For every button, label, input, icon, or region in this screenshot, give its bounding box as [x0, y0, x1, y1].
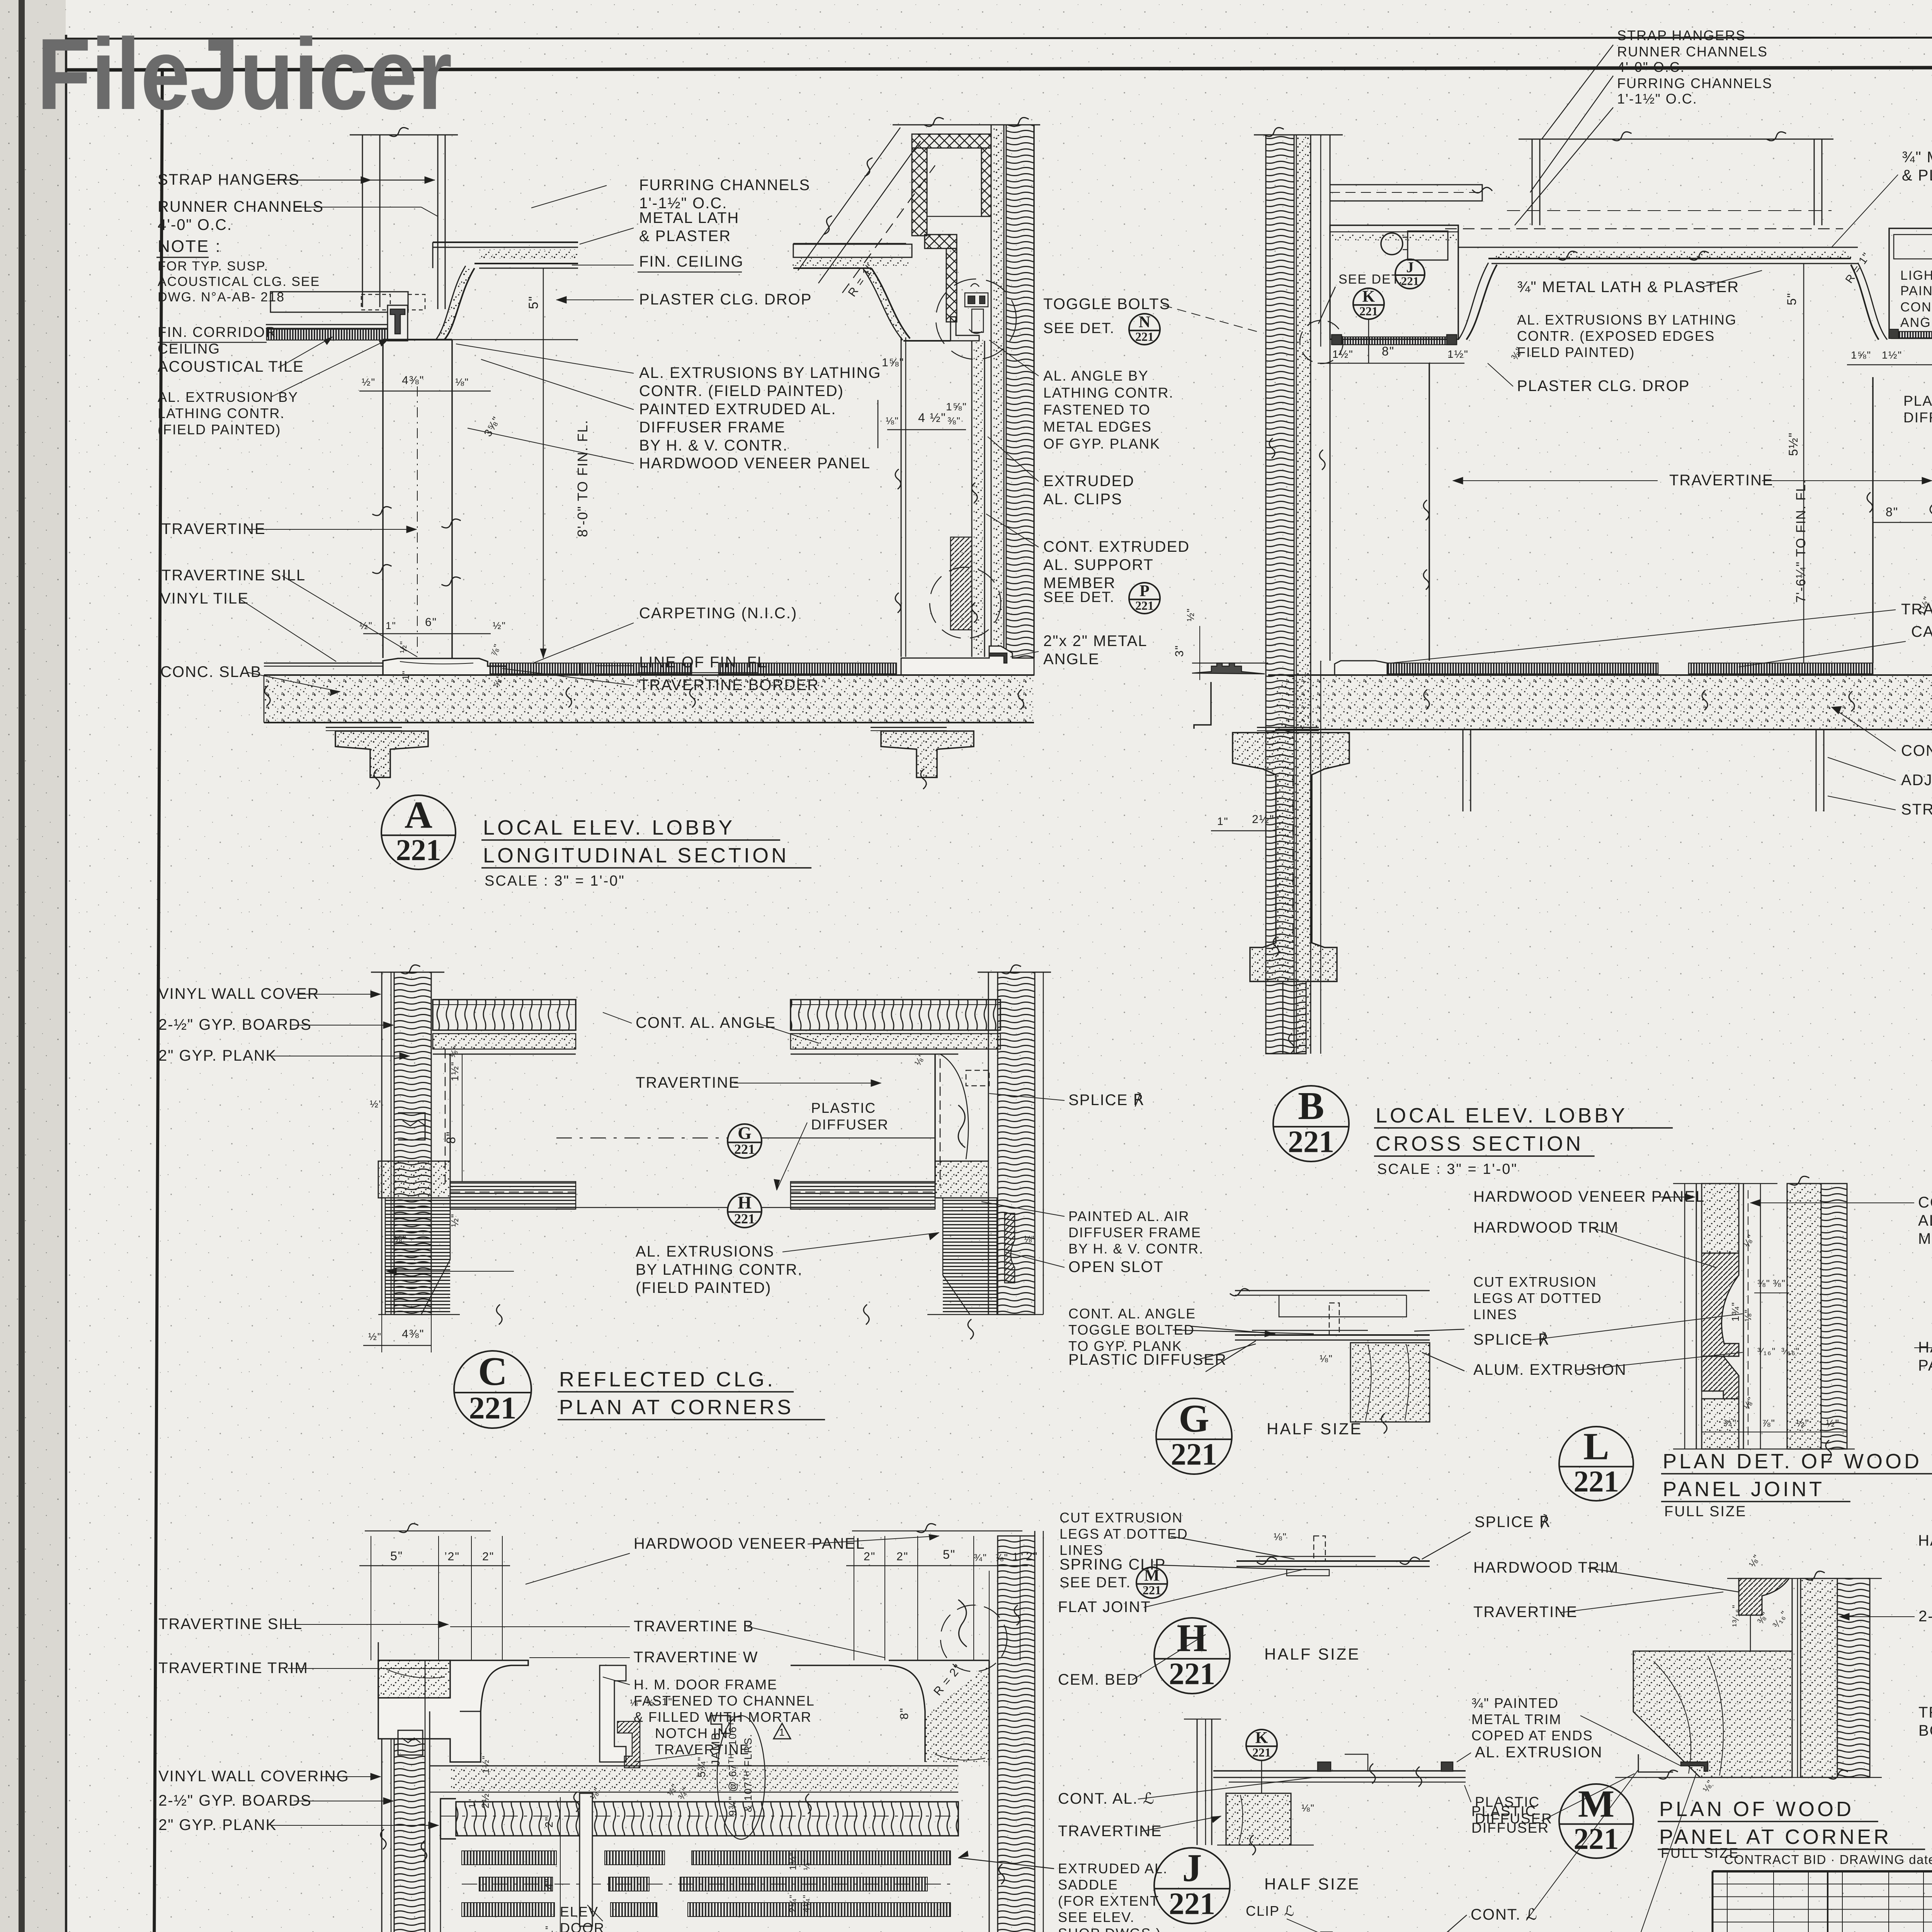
svg-text:½": ½": [493, 620, 506, 631]
masonry strip: [1006, 125, 1034, 658]
carpeting right: [490, 663, 580, 674]
svg-text:221: 221: [1288, 1125, 1334, 1159]
concrete slab B: [1275, 675, 1873, 730]
I-beam left B: [1257, 726, 1319, 731]
svg-text:ALUM. EXTRUSION: ALUM. EXTRUSION: [1473, 1361, 1627, 1378]
elevator shaft wall: [1254, 134, 1343, 136]
svg-text:CONT. ℒ: CONT. ℒ: [1471, 1906, 1538, 1923]
svg-text:CLIP ℒ: CLIP ℒ: [1246, 1903, 1295, 1919]
splice joint F: [958, 1600, 967, 1647]
cem bed block C right: [935, 1161, 988, 1198]
svg-text:⅜": ⅜": [1773, 1278, 1786, 1289]
svg-text:2": 2": [482, 1550, 494, 1563]
acoustical tile band: [267, 329, 388, 340]
detail marker G/221: [1156, 1397, 1232, 1474]
wall column D: [381, 1739, 383, 1932]
svg-text:REFLECTED CLG.: REFLECTED CLG.: [559, 1368, 776, 1391]
svg-text:PAINTED AL. AIRDIFFUSER FRAMEB: PAINTED AL. AIRDIFFUSER FRAMEBY H. & V. …: [1068, 1208, 1204, 1257]
concrete slab A: [264, 675, 578, 723]
svg-text:CROSS SECTION: CROSS SECTION: [1376, 1132, 1583, 1155]
svg-text:1: 1: [779, 1726, 785, 1738]
svg-text:8'-0" TO FIN. FL.: 8'-0" TO FIN. FL.: [575, 420, 590, 537]
gyp stipple strip L: [1787, 1184, 1821, 1449]
gyp plank band DEF: [456, 1802, 958, 1836]
svg-text:1⅝": 1⅝": [882, 356, 904, 369]
svg-text:221: 221: [1252, 1745, 1271, 1759]
svg-text:1": 1": [467, 1798, 478, 1808]
svg-text:STRAP HANGERS: STRAP HANGERS: [1901, 801, 1932, 818]
svg-text:HARDWOOD TRIM: HARDWOOD TRIM: [1918, 1532, 1932, 1549]
svg-text:FULL SIZE: FULL SIZE: [1664, 1503, 1747, 1520]
svg-text:⅜": ⅜": [947, 415, 961, 427]
wood veneer panel band C: [433, 1000, 576, 1030]
notch + HM frame E: [600, 1665, 626, 1762]
svg-text:½": ½": [1185, 608, 1196, 621]
detail A right wall: [893, 124, 1040, 126]
svg-text:⅛": ⅛": [1024, 1234, 1037, 1245]
panel lines M: [1792, 1578, 1793, 1777]
svg-text:1¼": 1¼": [788, 1852, 798, 1870]
svg-text:M: M: [1578, 1782, 1614, 1825]
svg-text:³⁄₁₆": ³⁄₁₆": [1757, 1346, 1776, 1357]
plaster cove right: [793, 267, 871, 269]
svg-text:⅛": ⅛": [394, 1234, 407, 1245]
svg-text:C: C: [478, 1349, 507, 1394]
svg-text:1½": 1½": [1332, 348, 1354, 360]
bubble J/221: [1395, 259, 1425, 289]
svg-text:H: H: [738, 1193, 752, 1213]
labels G: [1190, 1326, 1275, 1334]
runner channel C: [398, 1113, 425, 1140]
diffuser slot band C right: [791, 1182, 935, 1209]
svg-text:¾" METAL LATH & PLASTER: ¾" METAL LATH & PLASTER: [1517, 279, 1739, 296]
svg-text:⅛": ⅛": [455, 376, 469, 388]
svg-text:221: 221: [1574, 1464, 1619, 1498]
support member dashes L: [1743, 1184, 1744, 1449]
title block frame: [1713, 1870, 1932, 1872]
svg-text:N: N: [1139, 313, 1150, 331]
adjustable clips strap: [1463, 730, 1464, 811]
svg-text:FLAT JOINT: FLAT JOINT: [1058, 1599, 1151, 1616]
svg-text:TRAVERTINE TRIM: TRAVERTINE TRIM: [158, 1660, 308, 1677]
travertine wall E-F part: [791, 1660, 1022, 1762]
bubble K/221: [1353, 288, 1384, 319]
hanger sight lines: [798, 128, 900, 270]
svg-text:1⅝": 1⅝": [946, 401, 967, 413]
toggle clip detail: [965, 293, 988, 307]
svg-text:FIN. CEILING: FIN. CEILING: [639, 253, 744, 270]
T-beam below slab: [326, 726, 402, 731]
travertine block J: [1226, 1793, 1291, 1845]
svg-text:½": ½": [449, 1213, 461, 1227]
svg-text:221: 221: [1135, 599, 1154, 612]
plaster cove B: [1466, 265, 1497, 340]
detail marker C/221: [454, 1349, 531, 1428]
svg-text:7'-6¼" TO FIN. FL.: 7'-6¼" TO FIN. FL.: [1794, 479, 1808, 603]
svg-text:A: A: [405, 793, 432, 836]
svg-text:221: 221: [1359, 304, 1378, 318]
svg-text:1¾": 1¾": [1730, 1302, 1741, 1321]
travertine border cap D: [378, 1660, 450, 1698]
runner channel band: [793, 244, 912, 257]
svg-text:G: G: [738, 1123, 752, 1143]
svg-text:STRAP HANGERS: STRAP HANGERS: [1617, 27, 1746, 43]
svg-text:⅛": ⅛": [1301, 1802, 1315, 1814]
svg-text:HARDWOOD VENEER PANEL: HARDWOOD VENEER PANEL: [634, 1535, 865, 1552]
svg-text:¾": ¾": [974, 1552, 987, 1563]
svg-text:3": 3": [1173, 645, 1186, 657]
svg-text:½": ½": [362, 376, 376, 388]
details D E F plan: [365, 1531, 491, 1532]
svg-text:SEE DET.: SEE DET.: [1338, 272, 1403, 287]
sill dims: [363, 633, 491, 634]
svg-text:TRAVERTINE W: TRAVERTINE W: [634, 1649, 759, 1666]
svg-text:4⅜": 4⅜": [402, 1328, 424, 1340]
svg-text:LONGITUDINAL SECTION: LONGITUDINAL SECTION: [483, 844, 789, 867]
svg-text:8": 8": [1886, 505, 1898, 519]
svg-text:PLASTIC DIFFUSER: PLASTIC DIFFUSER: [1068, 1351, 1227, 1368]
oval note E: [717, 1716, 765, 1839]
sill edge above D: [378, 1642, 379, 1660]
svg-text:CONT. AL. ANGLE: CONT. AL. ANGLE: [636, 1014, 776, 1031]
gyp plank block G: [1350, 1343, 1430, 1422]
left scan margin: [0, 0, 66, 1932]
travertine wall D: [378, 1660, 528, 1762]
svg-text:½": ½": [1796, 1417, 1810, 1429]
door jamb D side: [480, 1711, 481, 1762]
svg-text:½": ½": [359, 620, 373, 631]
travertine wall A: [382, 340, 384, 658]
svg-text:8": 8": [898, 1708, 911, 1719]
see det M bubble: [1136, 1567, 1167, 1598]
svg-text:H: H: [1177, 1616, 1207, 1660]
svg-text:221: 221: [734, 1211, 755, 1226]
svg-text:PLAN OF WOOD: PLAN OF WOOD: [1659, 1798, 1854, 1821]
svg-text:³⁄₁₆": ³⁄₁₆": [1781, 1346, 1800, 1357]
panel stipple lower L: [1702, 1399, 1739, 1449]
svg-text:2½": 2½": [480, 1789, 491, 1808]
hardwood panel L: [1696, 1184, 1697, 1449]
dims B: [1318, 363, 1464, 364]
T-beam 2 below slab: [871, 726, 947, 731]
svg-text:’2": ’2": [444, 1550, 460, 1563]
svg-text:CEM. BED’: CEM. BED’: [1058, 1671, 1143, 1688]
svg-text:SEE DET.: SEE DET.: [1043, 320, 1115, 337]
warning triangle E: [774, 1723, 791, 1739]
svg-text:⅛": ⅛": [1274, 1531, 1287, 1543]
insulated header duct: [912, 134, 991, 148]
metal lath and plaster ceiling: [433, 241, 578, 243]
hardwood trim block: [951, 537, 972, 630]
svg-text:K: K: [1362, 288, 1375, 306]
hardwood veneer panel line: [901, 337, 902, 657]
corridor suspended ceiling: [270, 292, 408, 312]
svg-text:221: 221: [1169, 1887, 1215, 1921]
svg-text:LOCAL ELEV. LOBBY: LOCAL ELEV. LOBBY: [483, 816, 735, 839]
detail marker B/221: [1273, 1084, 1349, 1162]
svg-text:5½": 5½": [1786, 432, 1800, 456]
svg-text:SCALE : 3" = 1'-0": SCALE : 3" = 1'-0": [485, 873, 625, 889]
svg-text:1": 1": [1217, 815, 1229, 827]
slab right of B: [1873, 675, 1932, 730]
cont extruded al support member: [971, 341, 973, 657]
svg-text:2": 2": [543, 1816, 555, 1828]
svg-text:⅛": ⅛": [886, 415, 899, 427]
travertine sill A: [383, 658, 506, 675]
svg-text:CARPETING (N.I.C.): CARPETING (N.I.C.): [1911, 623, 1932, 640]
svg-text:TOGGLE BOLTS: TOGGLE BOLTS: [1043, 296, 1170, 313]
metal facia plate: [1194, 682, 1211, 729]
svg-text:½": ½": [370, 1098, 383, 1110]
svg-text:¾": ¾": [1723, 1417, 1737, 1429]
svg-text:TRAVERTINE SILL: TRAVERTINE SILL: [162, 567, 306, 584]
cem bed band DEF: [450, 1768, 958, 1791]
svg-text:B: B: [1298, 1084, 1324, 1128]
svg-text:J: J: [1182, 1846, 1202, 1890]
svg-text:HALF SIZE: HALF SIZE: [1264, 1875, 1360, 1893]
plastic diffuser right: [1891, 332, 1932, 338]
svg-text:4¼": 4¼": [801, 1894, 812, 1913]
wall below beam left: [1283, 981, 1306, 1054]
saddle comb bands DEF: [462, 1851, 556, 1865]
svg-text:2-½" GYP. BOARDS: 2-½" GYP. BOARDS: [158, 1016, 312, 1033]
revisions grid: [1827, 1871, 1828, 1932]
svg-text:1½": 1½": [481, 1755, 491, 1774]
carpeting B floor: [1387, 663, 1658, 674]
travertine border at wall base: [901, 646, 1034, 675]
svg-text:8": 8": [1382, 344, 1395, 358]
al extrusion clip: [388, 305, 408, 341]
svg-text:HALF SIZE: HALF SIZE: [1267, 1420, 1362, 1438]
svg-text:P: P: [1139, 582, 1150, 600]
detail L wood panel joint: [1684, 1184, 1685, 1449]
bubble G/221 in C: [728, 1123, 762, 1158]
extruded saddle B left: [1192, 663, 1265, 674]
svg-text:TRAVERTINE: TRAVERTINE: [1058, 1823, 1162, 1840]
svg-text:VINYL WALL COVERING: VINYL WALL COVERING: [158, 1768, 349, 1785]
svg-text:4⅜": 4⅜": [402, 374, 424, 387]
masonry strip L: [1821, 1184, 1847, 1449]
dims A right: [878, 400, 879, 448]
runner channel D: [398, 1730, 423, 1755]
svg-text:8": 8": [444, 1131, 458, 1144]
plates J: [1213, 1770, 1466, 1772]
svg-text:5": 5": [390, 1549, 403, 1563]
see det P/221 bubble: [1129, 582, 1160, 614]
detail marker M/221: [1559, 1782, 1633, 1858]
strap hangers B: [1532, 139, 1533, 225]
svg-text:221: 221: [1135, 330, 1154, 344]
svg-text:TRAVERTINE: TRAVERTINE: [636, 1074, 740, 1091]
svg-text:1": 1": [386, 620, 396, 631]
plastic diffuser B: [1333, 337, 1456, 345]
see det N/221 bubble: [1129, 313, 1160, 345]
2x2 metal angle: [989, 653, 1007, 663]
molding profile C right: [1005, 1213, 1015, 1283]
svg-text:2-½" GYP. BOARDS: 2-½" GYP. BOARDS: [158, 1792, 312, 1809]
svg-text:FileJuicer: FileJuicer: [37, 17, 452, 131]
masonry strip M: [1837, 1578, 1870, 1777]
svg-text:9¾" @ 67ᵀᴴ, 106ᵀᴴ: 9¾" @ 67ᵀᴴ, 106ᵀᴴ: [727, 1716, 738, 1816]
svg-text:1½": 1½": [1882, 349, 1902, 361]
svg-text:⅛": ⅛": [1320, 1353, 1333, 1364]
diffuser frame extrusion: [951, 317, 979, 341]
svg-text:221: 221: [1171, 1438, 1217, 1472]
svg-text:1": 1": [543, 1925, 555, 1932]
wall strip C left: [381, 972, 383, 1315]
vinyl tile floor left: [264, 663, 383, 664]
see det P arc: [930, 567, 1001, 638]
light trough right: [1889, 228, 1932, 338]
svg-text:2" GYP. PLANK: 2" GYP. PLANK: [158, 1047, 277, 1064]
see det N arc: [936, 279, 1016, 359]
diffuser hatch column C right: [943, 1198, 997, 1315]
svg-text:M: M: [1144, 1567, 1160, 1585]
svg-text:NOTE :: NOTE :: [158, 237, 221, 256]
svg-text:CONC. SLAB: CONC. SLAB: [160, 663, 262, 680]
svg-text:5": 5": [526, 296, 541, 309]
svg-text:SPLICE ℟: SPLICE ℟: [1475, 1514, 1551, 1531]
svg-text:CONC. SLAB: CONC. SLAB: [1901, 742, 1932, 759]
svg-text:2½": 2½": [1252, 813, 1274, 826]
svg-text:ADJUSTABLE CLIPS: ADJUSTABLE CLIPS: [1901, 772, 1932, 789]
svg-text:4 ½": 4 ½": [918, 411, 946, 425]
inner vertical C right: [934, 1054, 936, 1182]
svg-text:L: L: [1583, 1425, 1609, 1468]
travertine wall B right: [1872, 377, 1874, 663]
detail G: [1235, 1290, 1430, 1291]
svg-text:AL. EXTRUSION BYLATHING CONTR.: AL. EXTRUSION BYLATHING CONTR.(FIELD PAI…: [158, 389, 298, 437]
gyp stipple strip M: [1801, 1578, 1837, 1777]
strap hangers A: [362, 135, 363, 307]
svg-text:5": 5": [1785, 293, 1799, 305]
svg-text:6": 6": [425, 616, 437, 629]
wall dims: [359, 391, 491, 392]
svg-text:1½": 1½": [1447, 348, 1469, 360]
svg-text:K: K: [1255, 1729, 1268, 1747]
travertine wall below left trough: [1429, 363, 1430, 661]
bubble H/221 in C: [728, 1193, 762, 1228]
detail marker A/221: [381, 793, 456, 869]
svg-text:5": 5": [943, 1548, 956, 1561]
svg-text:221: 221: [469, 1390, 517, 1425]
svg-text:CONT. EXTRUDEDAL. SUPPORTMEMBE: CONT. EXTRUDEDAL. SUPPORTMEMBER: [1918, 1194, 1932, 1247]
5 inch dim: [543, 268, 544, 340]
svg-text:SPLICE ℟: SPLICE ℟: [1473, 1331, 1549, 1348]
runner channel band B: [1330, 185, 1482, 201]
detail C right corner plan: [791, 1000, 1000, 1030]
svg-text:221: 221: [1143, 1583, 1161, 1597]
svg-text:AL. EXTRUSION: AL. EXTRUSION: [1475, 1744, 1603, 1761]
plaster cove B right: [1658, 258, 1832, 259]
svg-text:SCALE : 3" = 1'-0": SCALE : 3" = 1'-0": [1377, 1161, 1518, 1177]
wall column F: [989, 1766, 990, 1932]
svg-text:SPLICE ℟: SPLICE ℟: [1068, 1092, 1145, 1109]
svg-text:OPEN SLOT: OPEN SLOT: [1068, 1259, 1164, 1276]
svg-text:1½": 1½": [449, 1061, 461, 1081]
gyp plank wall layers: [991, 125, 992, 657]
svg-text:HARDWOOD TRIM: HARDWOOD TRIM: [1473, 1219, 1619, 1236]
diffuser hatch column C: [385, 1198, 450, 1315]
svg-text:2¼": 2¼": [788, 1894, 798, 1913]
svg-text:¼": ¼": [802, 1859, 811, 1870]
cem bed behind F: [925, 1665, 989, 1762]
svg-text:4": 4": [543, 1878, 555, 1889]
gyp + angle band C: [433, 1034, 576, 1049]
svg-text:G: G: [1179, 1397, 1209, 1440]
svg-text:½": ½": [1826, 1417, 1840, 1429]
svg-text:TRAVERTINE BORDER: TRAVERTINE BORDER: [1901, 601, 1932, 618]
svg-text:PLAN DET. OF WOOD: PLAN DET. OF WOOD: [1663, 1450, 1922, 1473]
cem bed trapezoid M: [1633, 1651, 1792, 1777]
svg-text:CONTRACT BID · DRAWING da: CONTRACT BID · DRAWING date ’2-9-68 Towe…: [1724, 1852, 1932, 1867]
svg-text:ELEVDOOR: ELEVDOOR: [560, 1904, 605, 1932]
elevator door E: [580, 1793, 592, 1926]
svg-text:2": 2": [896, 1550, 908, 1563]
hardwood trim upper L: [1702, 1253, 1739, 1345]
svg-text:2" GYP. PLANK: 2" GYP. PLANK: [158, 1816, 277, 1833]
svg-text:2- ½" GYP. BOARDS: 2- ½" GYP. BOARDS: [1918, 1608, 1932, 1625]
diffuser slot band C: [450, 1182, 576, 1209]
concrete slab A right: [580, 675, 1034, 723]
svg-text:2": 2": [864, 1550, 876, 1563]
svg-text:221: 221: [1169, 1657, 1215, 1691]
svg-text:HALF SIZE: HALF SIZE: [1264, 1645, 1360, 1663]
svg-text:J: J: [1406, 259, 1414, 276]
svg-text:⅜": ⅜": [1757, 1278, 1770, 1289]
border frame: [66, 37, 1932, 39]
detail marker H/221: [1154, 1616, 1230, 1694]
svg-text:TRAVERTINE SILL: TRAVERTINE SILL: [158, 1616, 303, 1633]
detail marker J/221: [1154, 1846, 1230, 1923]
8-0 to fin fl dim: [543, 340, 544, 658]
svg-text:HARDWOOD TRIM: HARDWOOD TRIM: [1473, 1559, 1619, 1576]
svg-text:TRAVERTINE B: TRAVERTINE B: [634, 1618, 754, 1635]
svg-text:221: 221: [1401, 274, 1419, 288]
svg-text:SEE DET.: SEE DET.: [1043, 589, 1115, 605]
trim top M: [1739, 1578, 1789, 1615]
svg-text:PLASTER CLG. DROP: PLASTER CLG. DROP: [1517, 378, 1690, 395]
svg-text:SEE DET.: SEE DET.: [1060, 1575, 1131, 1591]
plaster cove: [444, 268, 474, 340]
svg-text:PLASTER CLG. DROP: PLASTER CLG. DROP: [639, 291, 812, 308]
detail H: [1236, 1560, 1430, 1562]
detail marker L/221: [1559, 1425, 1633, 1501]
hardwood trim lower L: [1702, 1356, 1739, 1399]
bubble K/221 in J: [1246, 1729, 1277, 1760]
svg-text:1⅝": 1⅝": [1851, 349, 1871, 361]
svg-text:221: 221: [734, 1141, 755, 1157]
svg-text:⅛": ⅛": [1743, 1309, 1753, 1321]
svg-text:HARDWOOD VENEER PANEL: HARDWOOD VENEER PANEL: [639, 455, 871, 472]
svg-text:⅞": ⅞": [1762, 1417, 1776, 1429]
svg-text:VINYL TILE: VINYL TILE: [160, 590, 249, 607]
svg-text:LOCAL ELEV. LOBBY: LOCAL ELEV. LOBBY: [1376, 1104, 1628, 1127]
svg-text:ACOUSTICAL TILE: ACOUSTICAL TILE: [158, 358, 304, 375]
panel stipple upper L: [1702, 1184, 1739, 1253]
carpeting A right: [580, 663, 692, 674]
svg-text:5¾": 5¾": [696, 1756, 707, 1777]
svg-text:¹³⁄₁₆": ¹³⁄₁₆": [1731, 1604, 1741, 1627]
light trough: [1330, 225, 1458, 339]
splice plate C: [958, 1105, 965, 1148]
metal trim angles M: [1681, 1762, 1708, 1771]
right wall strip C: [988, 972, 989, 1315]
svg-text:CARPETING (N.I.C.): CARPETING (N.I.C.): [639, 605, 797, 622]
svg-text:221: 221: [396, 833, 441, 867]
svg-text:PANEL JOINT: PANEL JOINT: [1663, 1478, 1825, 1501]
cem bed block C: [378, 1161, 450, 1198]
